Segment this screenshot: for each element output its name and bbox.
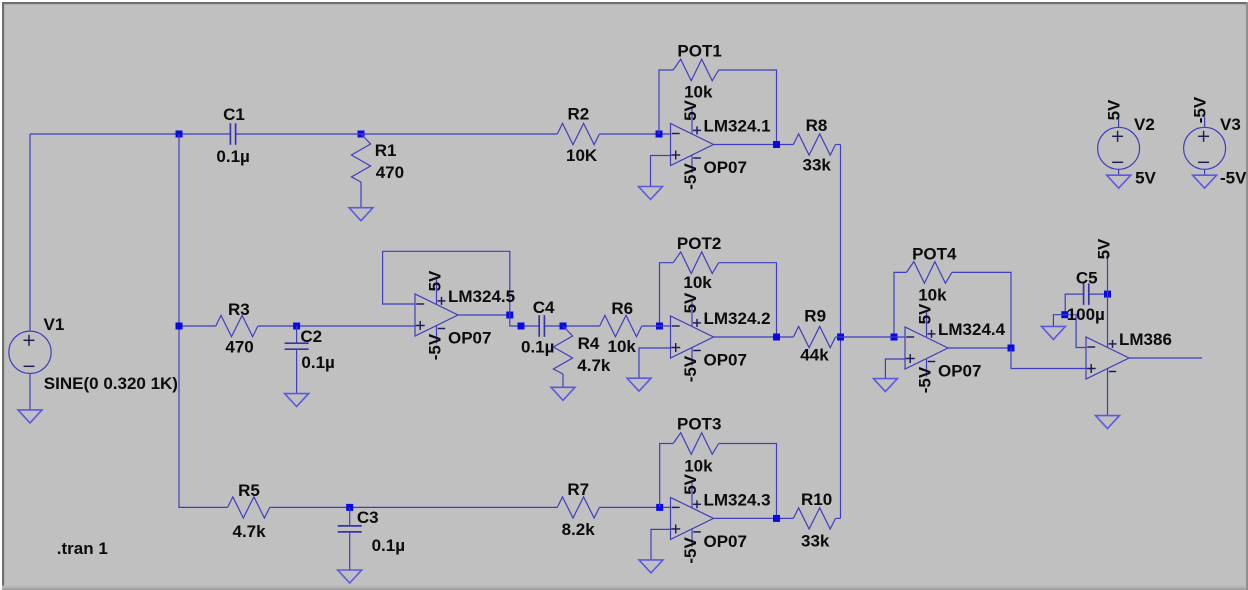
capacitor C3 0.1u	[338, 508, 405, 555]
wire R9 to summing bus	[836, 336, 841, 338]
node middle rail / branch junction	[176, 323, 183, 330]
wire POT1 feedback loop right	[719, 70, 777, 145]
svg-text:OP07: OP07	[704, 351, 747, 370]
svg-text:5V: 5V	[1105, 99, 1124, 120]
svg-text:0.1µ: 0.1µ	[216, 147, 249, 166]
svg-text:OP07: OP07	[704, 532, 747, 551]
node top rail / R1 junction	[358, 131, 365, 138]
wire U5 output jog down to C4	[510, 315, 539, 326]
ground below LM386	[1096, 416, 1120, 429]
capacitor C1 0.1u	[216, 105, 249, 166]
potentiometer POT4 10k	[906, 245, 957, 305]
svg-text:5V: 5V	[1135, 169, 1156, 188]
voltage source V2 5V	[1098, 99, 1157, 188]
wire 5V rail to LM386 V+ pin	[1107, 252, 1109, 348]
wire U4 noninverting input to ground	[885, 359, 905, 379]
wire LM386 V- pin to ground	[1107, 369, 1109, 416]
ground at U4 noninverting input	[873, 379, 897, 392]
svg-text:R1: R1	[375, 141, 397, 160]
svg-text:4.7k: 4.7k	[233, 522, 267, 541]
wire R10 to summing bus	[836, 517, 841, 519]
svg-text:-5V: -5V	[681, 163, 700, 190]
svg-text:0.1µ: 0.1µ	[301, 353, 334, 372]
wire POT3 feedback loop right	[719, 444, 777, 519]
resistor R6 10k	[600, 299, 642, 356]
svg-text:R10: R10	[801, 490, 832, 509]
wire POT2 feedback loop right	[719, 263, 777, 337]
ground at U2 noninverting input	[627, 378, 651, 391]
wire POT3 feedback loop left+top	[660, 444, 674, 508]
node U2 output junction	[773, 334, 780, 341]
svg-text:470: 470	[376, 163, 404, 182]
svg-text:5V: 5V	[681, 99, 700, 120]
wire U2 noninverting input to ground	[639, 348, 671, 378]
svg-text:C1: C1	[223, 105, 245, 124]
wire POT1 feedback loop left+top	[659, 70, 673, 134]
wire POT2 feedback loop left+top	[660, 263, 674, 326]
node C5 bypass junction	[1061, 311, 1068, 318]
svg-text:LM324.1: LM324.1	[704, 117, 771, 136]
svg-text:44k: 44k	[800, 346, 829, 365]
svg-text:5V: 5V	[916, 303, 935, 324]
svg-text:0.1µ: 0.1µ	[521, 338, 554, 357]
svg-text:-5V: -5V	[916, 366, 935, 393]
svg-text:-5V: -5V	[681, 537, 700, 564]
ground at U1 noninverting input	[639, 187, 663, 200]
node R4 junction	[560, 323, 567, 330]
op-amp U2 LM324.2	[671, 292, 771, 382]
wire middle rail R3 to U5 noninverting input	[258, 325, 415, 327]
svg-text:LM324.2: LM324.2	[704, 309, 771, 328]
svg-text:-5V: -5V	[1220, 169, 1247, 188]
resistor R4 4.7k	[553, 326, 611, 387]
wire bypass junction to ground	[1053, 315, 1064, 327]
wire R8 to summing bus	[836, 144, 841, 146]
svg-text:33k: 33k	[803, 156, 832, 175]
resistor R1 470	[351, 134, 404, 208]
node U1 output junction	[773, 141, 780, 148]
svg-text:V3: V3	[1220, 115, 1241, 134]
wire U3 noninverting input to ground	[651, 529, 671, 560]
svg-text:V1: V1	[44, 315, 65, 334]
svg-text:R2: R2	[568, 105, 590, 124]
op-amp U1 LM324.1	[671, 99, 771, 189]
wire C2 bottom lead	[296, 349, 298, 393]
wire U4 output to LM386 noninverting input	[1011, 348, 1086, 369]
wire POT4 feedback loop right	[952, 272, 1011, 348]
capacitor C4 0.1u	[521, 298, 555, 357]
resistor R10 33k	[793, 490, 835, 551]
wire C1 to R2	[235, 133, 557, 135]
svg-text:POT1: POT1	[677, 42, 721, 61]
ground below C2	[285, 394, 309, 407]
svg-text:POT3: POT3	[677, 415, 721, 434]
wire left drop to V1	[29, 134, 31, 331]
svg-text:R6: R6	[611, 299, 633, 318]
wire C3 bottom lead	[349, 532, 351, 570]
svg-text:R4: R4	[578, 334, 600, 353]
node POT1 tap junction	[656, 131, 663, 138]
op-amp U4 LM324.4	[905, 303, 1006, 393]
svg-text:R3: R3	[228, 300, 250, 319]
svg-text:10k: 10k	[683, 273, 712, 292]
ground at U3 noninverting input	[639, 560, 663, 573]
wire top rail from V1 to C1	[30, 133, 230, 135]
wire C5 left lead	[1065, 294, 1083, 315]
node 5V rail junction	[1104, 291, 1111, 298]
svg-text:C3: C3	[357, 508, 379, 527]
wire V2 to ground	[1118, 169, 1120, 175]
svg-text:SINE(0 0.320 1K): SINE(0 0.320 1K)	[44, 374, 178, 393]
svg-text:-5V: -5V	[681, 355, 700, 382]
spice directive .tran 1	[57, 539, 108, 558]
svg-text:4.7k: 4.7k	[577, 356, 611, 375]
voltage source V3 -5V	[1184, 96, 1248, 187]
resistor R5 4.7k	[228, 481, 270, 541]
svg-text:.tran 1: .tran 1	[57, 539, 108, 558]
svg-text:LM324.5: LM324.5	[448, 287, 515, 306]
svg-text:POT2: POT2	[677, 234, 721, 253]
wire U1 output to R8	[714, 144, 794, 146]
svg-text:5V: 5V	[1095, 238, 1114, 259]
wire C4 to R6	[545, 325, 600, 327]
node top rail / mid-branch junction	[176, 131, 183, 138]
node U5 output junction	[506, 312, 513, 319]
wire R7 to U3 inverting input	[599, 506, 670, 508]
wire bypass junction to LM386 inverting input	[1065, 315, 1086, 348]
node C4 left junction	[518, 323, 525, 330]
resistor R2 10K	[557, 105, 599, 166]
svg-text:10k: 10k	[608, 337, 637, 356]
op-amp U6 LM386	[1086, 330, 1172, 379]
wire summing bus to U4 inverting input	[841, 336, 906, 338]
op-amp U3 LM324.3	[671, 473, 771, 563]
svg-text:5V: 5V	[681, 473, 700, 494]
wire U5 feedback loop	[383, 251, 510, 315]
svg-text:C2: C2	[300, 327, 322, 346]
wire R2 to U1 inverting input	[599, 133, 670, 135]
svg-text:V2: V2	[1134, 115, 1155, 134]
wire U3 output to R10	[714, 517, 794, 519]
wire C2 top lead	[296, 326, 298, 343]
wire C3 top lead	[349, 507, 351, 526]
ground below V2	[1107, 175, 1131, 188]
wire mid vertical branch and bottom rail to R5	[179, 134, 228, 507]
svg-text:OP07: OP07	[704, 158, 747, 177]
op-amp U5 LM324.5	[415, 270, 515, 360]
node POT2 tap junction	[656, 323, 663, 330]
node POT3 tap junction	[656, 504, 663, 511]
wire R6 to U2 inverting input	[642, 325, 671, 327]
node POT4 tap junction	[891, 334, 898, 341]
wire U4 output to POT4 right leg	[948, 347, 1011, 349]
wire V3 to ground	[1204, 169, 1206, 175]
wire U2 output to R9	[714, 336, 794, 338]
svg-text:-5V: -5V	[426, 333, 445, 360]
svg-text:0.1µ: 0.1µ	[372, 536, 405, 555]
potentiometer POT1 10k	[673, 42, 722, 102]
ground below V1	[18, 410, 42, 423]
svg-text:-5V: -5V	[1191, 96, 1210, 123]
resistor R7 8.2k	[557, 480, 599, 539]
ground below R4	[551, 387, 575, 400]
svg-text:10k: 10k	[684, 457, 713, 476]
node U4 output junction	[1008, 345, 1015, 352]
svg-text:5V: 5V	[681, 292, 700, 313]
svg-text:R7: R7	[567, 480, 589, 499]
svg-text:8.2k: 8.2k	[562, 520, 596, 539]
svg-text:C5: C5	[1076, 269, 1098, 288]
node C3 junction	[346, 504, 353, 511]
svg-text:R9: R9	[804, 307, 826, 326]
wire middle rail from branch to R3	[179, 325, 216, 327]
wire summing bus vertical	[840, 145, 842, 519]
wire R5 to R7	[270, 506, 558, 508]
svg-text:LM324.3: LM324.3	[704, 490, 771, 509]
svg-text:100µ: 100µ	[1067, 305, 1105, 324]
svg-text:470: 470	[225, 338, 253, 357]
wire U5 output	[458, 314, 510, 316]
wire C5 right lead to 5V rail	[1089, 293, 1108, 295]
svg-text:OP07: OP07	[938, 362, 981, 381]
svg-text:10k: 10k	[918, 286, 947, 305]
svg-text:33k: 33k	[801, 532, 830, 551]
svg-text:5V: 5V	[426, 270, 445, 291]
node C2 junction	[293, 323, 300, 330]
svg-text:R5: R5	[238, 481, 260, 500]
node U3 output junction	[773, 515, 780, 522]
resistor R8 33k	[793, 116, 835, 175]
voltage source V1 SINE(0 0.320 1K)	[9, 315, 178, 393]
svg-text:POT4: POT4	[912, 245, 957, 264]
svg-text:10K: 10K	[566, 146, 598, 165]
ground at C5 bypass	[1041, 326, 1065, 339]
resistor R3 470	[216, 300, 258, 357]
svg-text:OP07: OP07	[448, 329, 491, 348]
node summing bus junction	[837, 334, 844, 341]
potentiometer POT3 10k	[673, 415, 721, 476]
svg-text:LM386: LM386	[1119, 330, 1172, 349]
wire POT4 feedback loop left+top	[894, 272, 906, 337]
capacitor C2 0.1u	[285, 327, 335, 372]
ground below R1	[349, 208, 373, 221]
ground below C3	[338, 570, 362, 583]
wire U1 noninverting input to ground	[651, 156, 671, 187]
ground below V3	[1193, 175, 1217, 188]
svg-text:R8: R8	[806, 116, 828, 135]
net label 5V at LM386 supply	[1095, 238, 1114, 259]
resistor R9 44k	[793, 307, 835, 365]
svg-text:LM324.4: LM324.4	[938, 320, 1006, 339]
capacitor C5 100u	[1067, 269, 1105, 325]
wire V1 to ground	[29, 374, 31, 410]
svg-text:10k: 10k	[684, 83, 713, 102]
wire LM386 output	[1129, 357, 1202, 359]
svg-text:C4: C4	[533, 298, 555, 317]
potentiometer POT2 10k	[673, 234, 721, 292]
